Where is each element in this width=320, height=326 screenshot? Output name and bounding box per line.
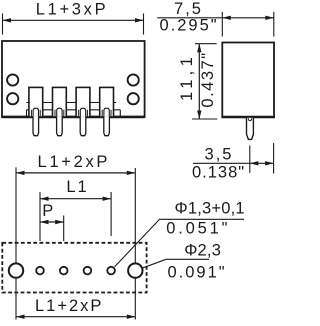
svg-text:L1: L1 [66, 178, 88, 196]
side view solder pin [247, 118, 254, 139]
extension line pin center 3,5 [249, 146, 251, 173]
front view body [2, 41, 145, 117]
extension line left of 7,5 [221, 12, 223, 37]
dimension line L1 [40, 197, 111, 201]
svg-text:Φ1,3+0,1: Φ1,3+0,1 [175, 199, 245, 217]
footprint hole small 4 [107, 267, 115, 275]
contact 4 tower [100, 87, 114, 117]
footprint hole big left [9, 263, 23, 277]
extension line left of L1+3xP [2, 14, 4, 35]
side view body [221, 43, 275, 118]
footprint dashed outline [2, 243, 146, 293]
front view mounting hole bottom-left [7, 93, 18, 104]
extension line right hole center [134, 168, 136, 320]
extension line fourth small hole [110, 192, 112, 236]
contact 2 solder pin [57, 117, 63, 136]
dimension line P [40, 220, 64, 224]
dimension line 3,5 with shelf [193, 161, 274, 165]
extension line second small hole [63, 216, 65, 242]
footprint hole small 1 [36, 267, 44, 275]
dimension 11,1 extension line top [195, 43, 217, 45]
svg-text:P: P [42, 202, 55, 220]
svg-text:7,5: 7,5 [174, 0, 203, 18]
svg-text:L1+2xP: L1+2xP [35, 297, 103, 315]
dimension line L1+2xP bottom [16, 315, 135, 319]
dimension line 11,1 [197, 44, 201, 119]
svg-text:L1+3xP: L1+3xP [36, 0, 109, 18]
leader line Φ1,3 [115, 219, 244, 266]
extension line left hole center [15, 167, 17, 319]
extension line right of 7,5 [273, 12, 275, 37]
svg-text:0.138": 0.138" [192, 164, 245, 182]
dimension line L1+2xP top [16, 171, 135, 175]
svg-text:3,5: 3,5 [205, 145, 234, 163]
contact 4 solder pin [104, 117, 110, 136]
leader line Φ2,3 [142, 259, 209, 268]
contact 2 tower [53, 87, 67, 117]
dimension line 7,5 with shelf [157, 16, 274, 20]
contact 1 tower [29, 87, 43, 117]
contact 3 tower [76, 87, 90, 117]
dimension 11,1 extension line bottom [192, 118, 217, 120]
footprint hole small 2 [60, 267, 68, 275]
dimension text L1+3xP [36, 0, 109, 18]
svg-text:0.051": 0.051" [166, 220, 230, 238]
extension line right of L1+3xP [143, 14, 145, 35]
contact 3 solder pin [80, 117, 86, 136]
footprint hole big right [128, 263, 142, 277]
dimension line L1+3xP [3, 18, 144, 22]
contact 1 solder pin [33, 117, 39, 136]
extension line first small hole [39, 192, 41, 241]
footprint hole small 3 [84, 267, 92, 275]
svg-text:L1+2xP: L1+2xP [37, 153, 110, 171]
svg-text:11,1: 11,1 [178, 53, 196, 101]
svg-text:0.295": 0.295" [160, 17, 219, 35]
svg-text:0.437": 0.437" [199, 51, 217, 107]
svg-text:0.091": 0.091" [168, 263, 227, 281]
front view mounting hole top-right [128, 74, 139, 85]
front view inner shelf lines [27, 103, 121, 117]
front view mounting hole bottom-right [128, 93, 139, 104]
front view mounting hole top-left [7, 74, 18, 85]
svg-text:Φ2,3: Φ2,3 [184, 241, 221, 259]
extension line body edge 3,5 [273, 143, 275, 174]
